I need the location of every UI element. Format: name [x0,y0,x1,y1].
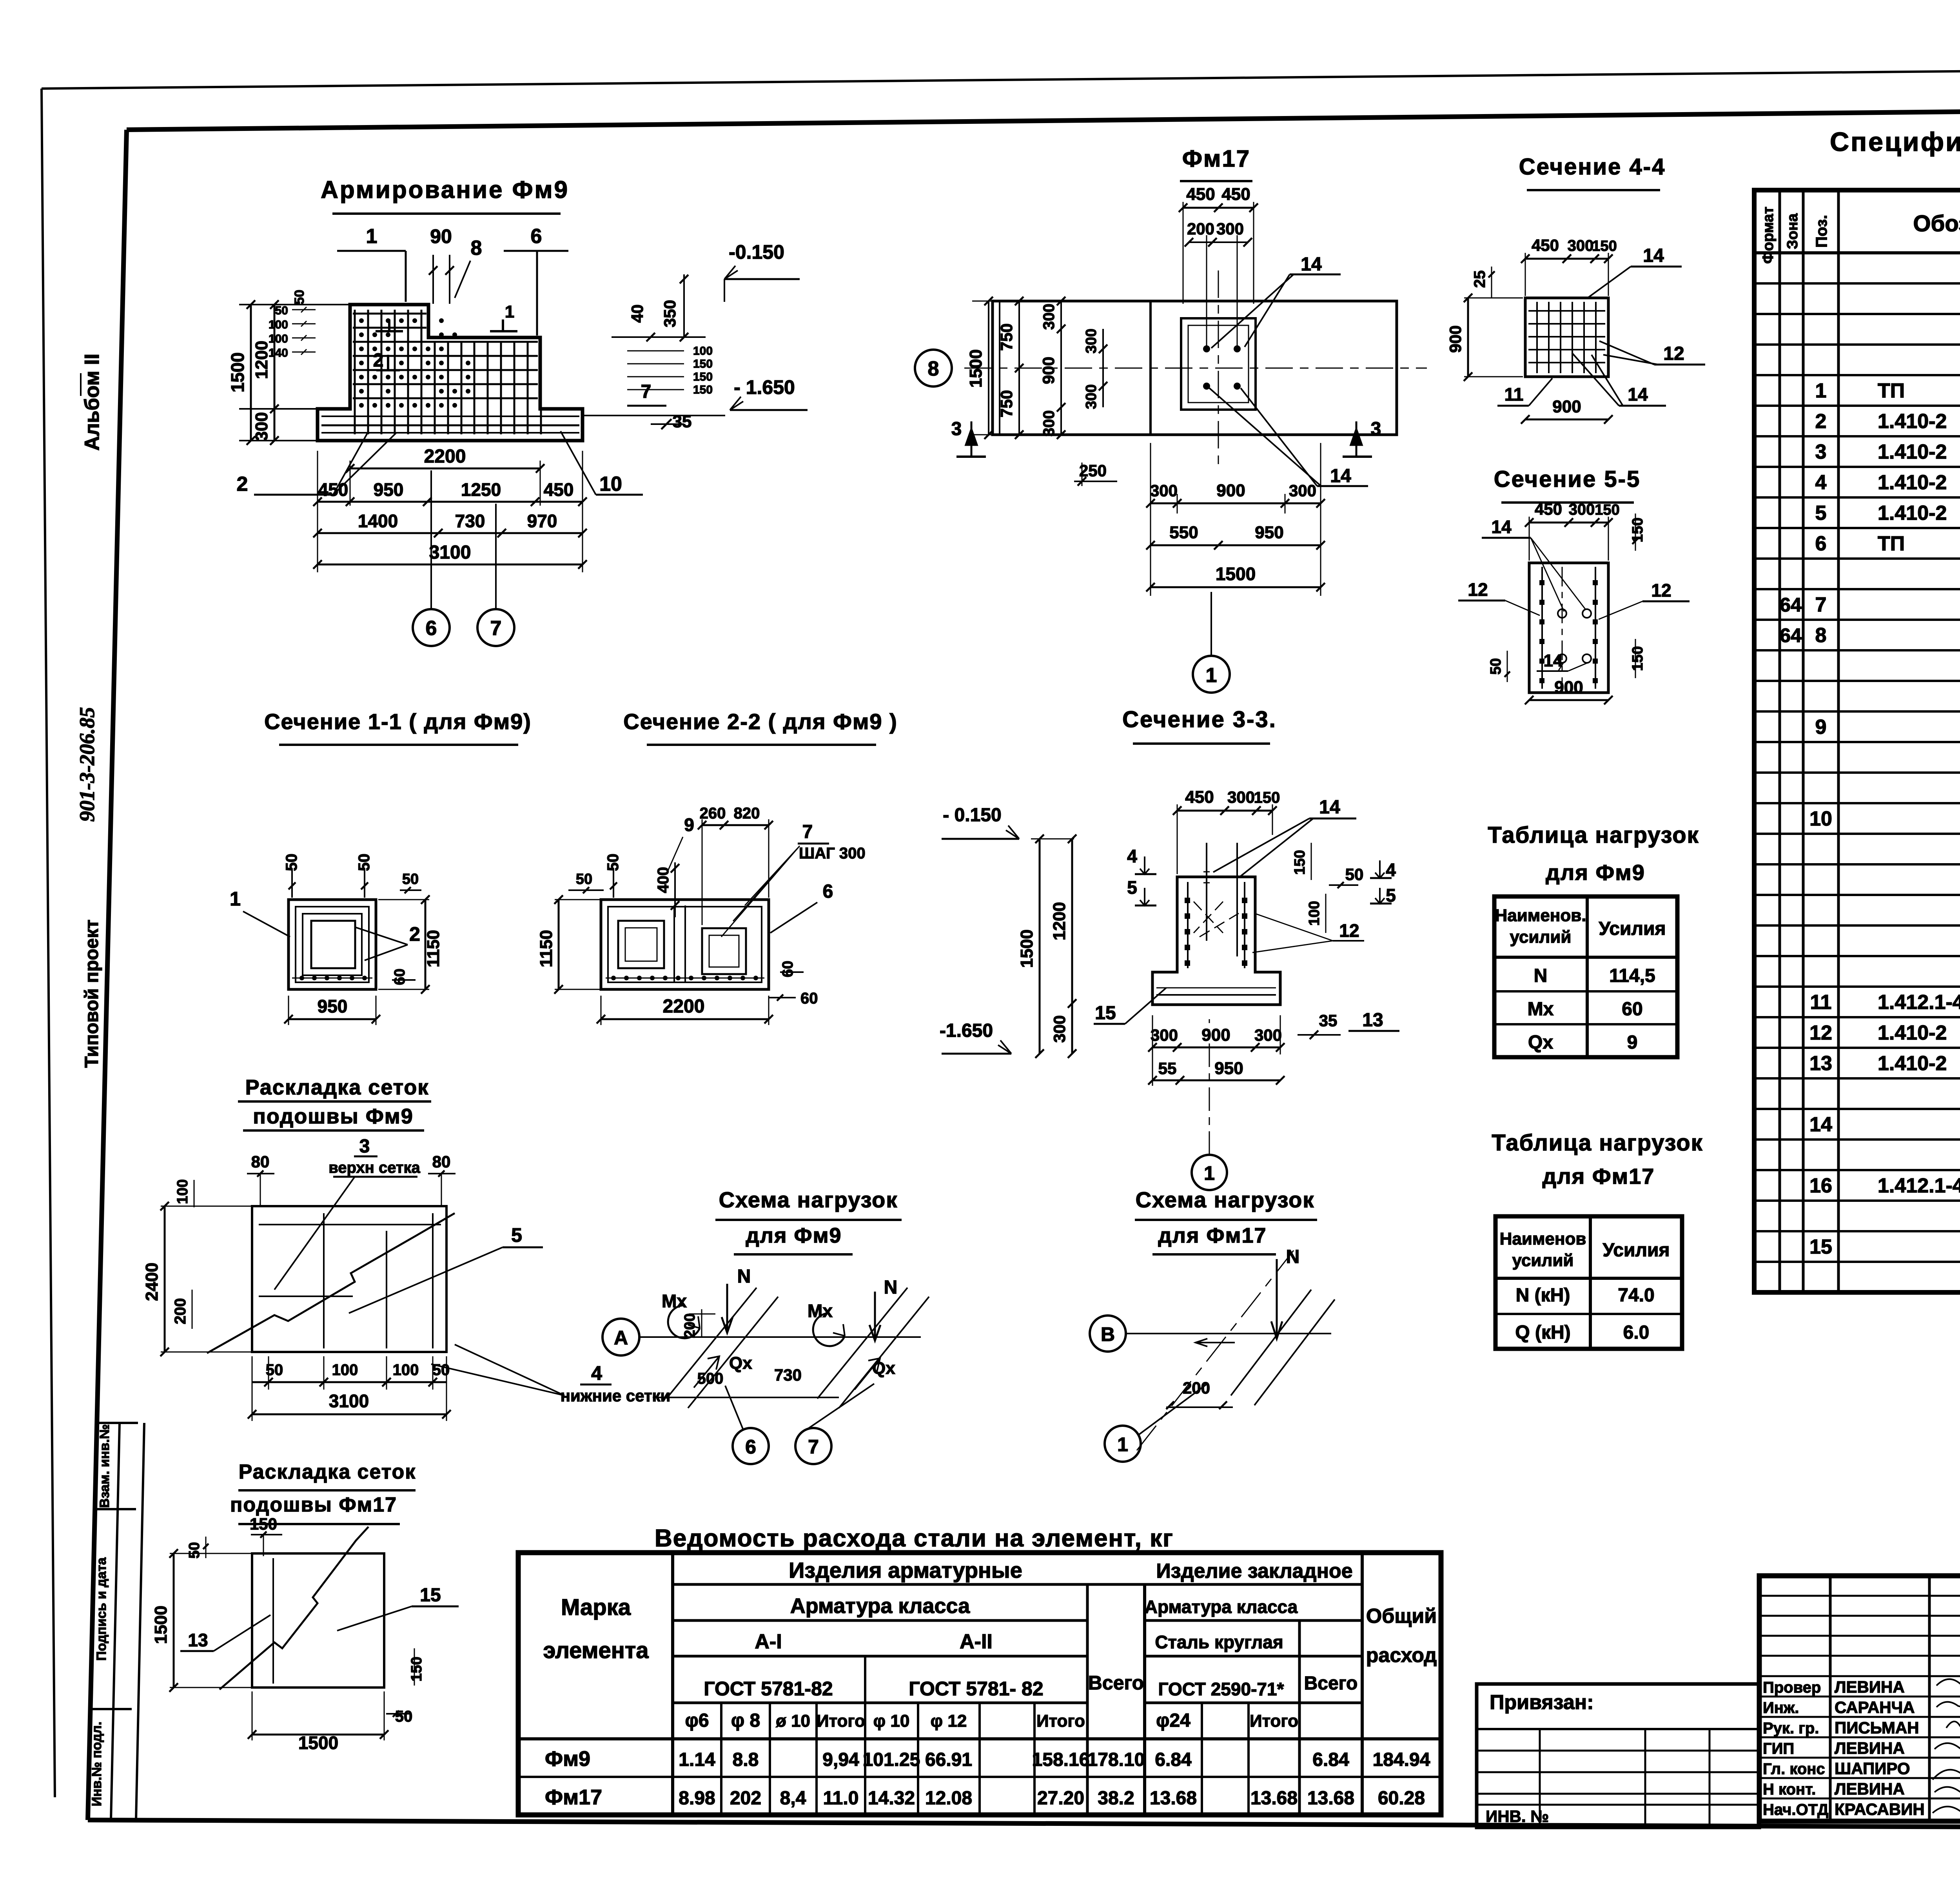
svg-text:7: 7 [641,381,652,402]
svg-text:- 1.650: - 1.650 [734,376,795,398]
svg-text:1: 1 [1815,379,1827,402]
svg-text:Марка: Марка [561,1595,631,1620]
load table Fm17 [1495,1216,1682,1349]
svg-text:750: 750 [997,390,1016,417]
svg-text:12: 12 [1468,579,1488,600]
svg-text:для Фм9: для Фм9 [746,1224,842,1247]
right small dims 40/350, 100x150 chain [612,336,706,338]
svg-text:1250: 1250 [461,479,501,500]
svg-text:300: 300 [1083,328,1100,353]
svg-text:450: 450 [1532,236,1559,254]
svg-text:3: 3 [1815,441,1827,463]
svg-text:подошвы Фм9: подошвы Фм9 [253,1105,414,1128]
svg-text:ИНВ. №: ИНВ. № [1486,1807,1549,1825]
svg-text:5: 5 [511,1224,522,1246]
axis circles 6 and 7 [413,609,450,646]
svg-text:450: 450 [318,479,348,500]
svg-text:150: 150 [1254,789,1280,806]
section 2-2 bottom bars [606,978,764,979]
svg-text:1500: 1500 [298,1733,338,1753]
svg-text:4: 4 [591,1362,602,1384]
svg-text:300: 300 [1216,220,1244,238]
svg-text:Раскладка сеток: Раскладка сеток [245,1076,429,1099]
svg-text:подошвы Фм17: подошвы Фм17 [230,1493,397,1516]
svg-text:Раскладка сеток: Раскладка сеток [239,1461,416,1483]
svg-text:3: 3 [359,1136,370,1157]
svg-text:8: 8 [471,237,482,259]
stamp box line [99,1422,138,1424]
svg-text:Обозначение: Обозначение [1913,211,1960,236]
svg-text:Инж.: Инж. [1763,1699,1799,1717]
svg-text:11.0: 11.0 [823,1788,859,1809]
Fm17 pedestal [1181,318,1256,410]
svg-text:1500: 1500 [966,349,985,388]
svg-text:15: 15 [420,1585,441,1606]
signature [1933,1770,1960,1782]
svg-text:1150: 1150 [537,930,556,967]
svg-text:25: 25 [1471,270,1488,288]
svg-text:74.0: 74.0 [1618,1285,1654,1306]
svg-text:1.410-2: 1.410-2 [1878,441,1947,463]
svg-text:Qх: Qх [729,1354,752,1373]
svg-text:150: 150 [408,1657,425,1681]
schema Fm9 axis [603,1319,639,1355]
svg-text:6: 6 [823,881,833,902]
svg-text:8: 8 [928,357,939,380]
svg-text:ГИП: ГИП [1763,1740,1794,1757]
svg-text:ЛЕВИНА: ЛЕВИНА [1835,1678,1905,1696]
stamp right vertical [136,1423,144,1820]
svg-text:Формат: Формат [1760,207,1777,264]
svg-text:900: 900 [1201,1025,1230,1045]
svg-text:150: 150 [1595,502,1619,518]
svg-text:7: 7 [802,822,813,842]
stamp inner vertical [111,1423,120,1820]
svg-text:150: 150 [1292,850,1308,875]
svg-text:14: 14 [1628,384,1648,405]
svg-text:300: 300 [1569,501,1595,518]
svg-text:Альбом II: Альбом II [81,354,103,451]
svg-text:САРАНЧА: САРАНЧА [1835,1698,1915,1717]
svg-text:55: 55 [1158,1059,1177,1078]
svg-text:Таблица нагрузок: Таблица нагрузок [1492,1130,1703,1156]
svg-text:9: 9 [684,815,694,835]
svg-text:450: 450 [1186,185,1215,204]
svg-text:300: 300 [1050,1015,1069,1043]
svg-text:300: 300 [1150,481,1178,500]
marker 1 section left [376,330,403,332]
section 3-3 left dims [1039,839,1041,1054]
svg-text:8.8: 8.8 [733,1749,759,1770]
signature [1936,1702,1960,1709]
svg-text:100: 100 [269,332,288,345]
svg-text:450: 450 [1185,788,1214,807]
svg-text:3100: 3100 [429,542,471,563]
svg-text:14: 14 [1330,466,1351,486]
svg-text:60: 60 [1622,999,1642,1020]
svg-text:1: 1 [1206,664,1217,687]
svg-text:901-3-206.85: 901-3-206.85 [75,707,99,822]
Fm17 bolts [1203,345,1210,352]
svg-text:Qх: Qх [1528,1032,1553,1053]
svg-text:1400: 1400 [358,511,398,531]
section 2-2 dims [558,900,560,989]
svg-text:14: 14 [1301,254,1322,275]
svg-text:- 0.150: - 0.150 [943,805,1001,826]
svg-text:φ 12: φ 12 [931,1711,967,1731]
frame bottom [88,1820,1960,1829]
svg-text:Зона: Зона [1784,213,1801,249]
svg-text:550: 550 [1169,523,1198,542]
svg-text:Рук. гр.: Рук. гр. [1763,1720,1819,1737]
svg-text:8,4: 8,4 [780,1788,806,1809]
svg-text:300: 300 [1040,410,1058,437]
svg-text:150: 150 [250,1515,277,1533]
svg-text:Усилия: Усилия [1602,1240,1670,1261]
svg-text:ТП: ТП [1878,379,1905,402]
marker 11 [490,330,517,332]
svg-text:N: N [737,1266,751,1287]
svg-text:Изделие закладное: Изделие закладное [1156,1560,1352,1582]
svg-text:1: 1 [1204,1162,1215,1184]
svg-text:Итого: Итого [1036,1711,1085,1731]
svg-text:60.28: 60.28 [1378,1788,1425,1809]
svg-text:300: 300 [1568,237,1594,254]
stamp box line [97,1508,136,1510]
svg-text:80: 80 [251,1152,270,1171]
svg-text:для Фм17: для Фм17 [1158,1224,1267,1247]
svg-text:ЛЕВИНА: ЛЕВИНА [1835,1780,1905,1798]
stamp box line [93,1708,132,1710]
svg-text:500: 500 [697,1370,724,1387]
svg-text:730: 730 [455,511,485,531]
svg-text:ШАПИРО: ШАПИРО [1835,1759,1910,1778]
schema Fm17 slanted lines [1231,1290,1311,1395]
svg-text:Провер: Провер [1763,1679,1821,1696]
svg-text:50: 50 [186,1542,203,1559]
svg-text:-1.650: -1.650 [940,1020,993,1041]
svg-text:Мх: Мх [1528,999,1554,1020]
section 5-5 dims [1529,522,1608,524]
svg-text:400: 400 [655,867,672,893]
svg-text:35: 35 [1319,1011,1338,1030]
svg-text:Qх: Qх [872,1359,895,1378]
svg-text:1: 1 [366,225,377,248]
svg-text:Итого: Итого [817,1711,865,1731]
svg-text:150: 150 [693,357,713,370]
svg-text:100: 100 [269,318,288,331]
svg-text:6: 6 [745,1436,756,1458]
svg-text:2: 2 [373,350,384,371]
svg-text:Сечение 1-1 ( для Фм9): Сечение 1-1 ( для Фм9) [264,709,532,734]
svg-text:Взам. инв.№: Взам. инв.№ [97,1424,112,1508]
svg-text:6: 6 [1815,532,1827,555]
svg-text:3: 3 [951,419,962,439]
svg-text:ГОСТ 5781- 82: ГОСТ 5781- 82 [909,1678,1043,1700]
svg-text:158.16: 158.16 [1032,1749,1090,1770]
section 1-1 dims [291,868,293,898]
svg-text:Изделия арматурные: Изделия арматурные [789,1558,1022,1582]
svg-text:50: 50 [292,290,307,305]
schema Fm17 axis [1090,1316,1126,1352]
svg-text:Усилия: Усилия [1599,918,1666,939]
signature [1946,1722,1960,1731]
privyazan block [1477,1684,1759,1827]
svg-text:Фм17: Фм17 [1182,145,1250,172]
Fm17 plan outline [993,301,1397,435]
svg-text:900: 900 [1216,481,1245,500]
svg-text:60: 60 [800,990,818,1007]
schema Fm17 circle 1 [1105,1426,1141,1462]
svg-text:Всего: Всего [1304,1673,1358,1694]
svg-text:50: 50 [283,854,300,871]
svg-text:Всего: Всего [1088,1672,1144,1694]
section 3-3 top dims [1177,810,1272,812]
svg-text:N: N [884,1277,898,1298]
svg-text:2: 2 [409,923,420,945]
svg-text:Н конт.: Н конт. [1763,1781,1816,1798]
svg-text:450: 450 [1221,185,1250,204]
Fm17 left dims [988,301,989,435]
svg-text:6.84: 6.84 [1312,1749,1349,1770]
svg-text:60: 60 [392,969,408,985]
svg-text:150: 150 [693,370,713,383]
svg-text:ГОСТ 5781-82: ГОСТ 5781-82 [704,1678,833,1700]
svg-text:60: 60 [780,961,796,977]
schema Fm9 slanted planes [666,1288,757,1399]
svg-text:1500: 1500 [1216,564,1256,584]
schema Fm9 circles 6 7 [733,1428,769,1464]
section 2-2 left pocket [618,921,664,968]
svg-text:А-I: А-I [755,1630,782,1653]
section 4-4 dims [1525,258,1608,260]
svg-text:1150: 1150 [424,930,443,967]
svg-text:12: 12 [1651,580,1671,601]
svg-text:6: 6 [531,225,542,248]
svg-text:А: А [614,1327,628,1349]
svg-text:140: 140 [269,347,288,359]
svg-text:100: 100 [1306,901,1323,925]
svg-text:усилий: усилий [1512,1251,1574,1270]
svg-text:820: 820 [734,805,760,822]
svg-text:1500: 1500 [227,352,248,392]
frame left [88,130,127,1820]
svg-text:8.98: 8.98 [679,1788,715,1809]
svg-text:усилий: усилий [1510,927,1572,947]
svg-text:13.68: 13.68 [1150,1788,1197,1809]
svg-text:12.08: 12.08 [925,1788,972,1809]
svg-text:50: 50 [432,1361,450,1379]
schema Fm17 N arrow [1271,1259,1282,1339]
svg-text:Ведомость расхода стали на: Ведомость расхода стали на элемент, кг [655,1525,1174,1552]
svg-text:38.2: 38.2 [1098,1788,1134,1809]
svg-text:Сечение 3-3.: Сечение 3-3. [1122,707,1277,732]
svg-text:Подпись и дата: Подпись и дата [94,1557,109,1661]
section 5-5 rect [1529,563,1608,693]
svg-text:для Фм9: для Фм9 [1546,860,1645,885]
svg-text:100: 100 [332,1361,358,1379]
title block outer [1759,1576,1960,1821]
Fm17 section marker 3 left [966,421,977,457]
svg-text:200: 200 [172,1298,189,1325]
svg-text:Q (кН): Q (кН) [1515,1322,1570,1343]
svg-text:50: 50 [395,1708,413,1725]
signature [1935,1787,1960,1795]
Fm17 top dims 200/300 [1189,241,1248,243]
svg-text:элемента: элемента [543,1638,649,1663]
svg-text:Нач.ОТД: Нач.ОТД [1763,1801,1829,1818]
svg-text:В: В [1101,1323,1115,1345]
rebar grid [354,310,356,434]
svg-text:950: 950 [1214,1059,1243,1078]
svg-text:1200: 1200 [1050,902,1069,940]
svg-text:970: 970 [527,511,557,531]
svg-text:Сечение 4-4: Сечение 4-4 [1519,154,1666,180]
svg-text:150: 150 [1630,646,1646,671]
svg-text:1.410-2: 1.410-2 [1878,1022,1947,1044]
Fm17 center lines [964,368,1427,369]
svg-text:ПИСЬМАН: ПИСЬМАН [1835,1718,1919,1737]
svg-text:Мх: Мх [808,1301,833,1321]
svg-text:64: 64 [1780,624,1802,646]
section 2-2 outline [601,900,769,989]
svg-text:Фм9: Фм9 [545,1747,590,1771]
svg-text:64: 64 [1780,594,1802,616]
svg-text:100: 100 [693,345,713,357]
section 3-3 outline [1152,877,1280,1005]
svg-text:1500: 1500 [151,1606,171,1644]
svg-text:900: 900 [1446,325,1465,353]
svg-text:ГОСТ 2590-71*: ГОСТ 2590-71* [1158,1679,1284,1699]
svg-text:2400: 2400 [142,1263,162,1301]
svg-text:11: 11 [1810,991,1832,1014]
svg-text:150: 150 [693,383,713,396]
svg-text:450: 450 [544,479,574,500]
svg-text:66.91: 66.91 [925,1749,972,1770]
svg-text:50: 50 [604,854,622,871]
svg-text:7: 7 [490,617,502,640]
svg-text:184.94: 184.94 [1373,1749,1430,1770]
svg-text:N: N [1534,965,1548,986]
svg-text:N (кН): N (кН) [1516,1285,1570,1306]
axis circle 8 [915,350,952,386]
svg-text:Сталь круглая: Сталь круглая [1155,1632,1283,1652]
svg-text:14: 14 [1643,245,1664,266]
svg-text:4: 4 [1127,846,1137,866]
svg-text:40: 40 [628,305,646,323]
schema Fm9 Qx arrows [694,1356,719,1388]
svg-text:Фм17: Фм17 [545,1785,602,1809]
svg-text:950: 950 [1255,523,1283,542]
svg-text:φ 10: φ 10 [873,1711,910,1731]
svg-text:14: 14 [1809,1113,1832,1136]
callout 1 [337,250,406,252]
svg-text:300: 300 [1289,481,1316,500]
svg-text:300: 300 [1040,304,1058,330]
svg-text:260: 260 [700,805,726,822]
svg-text:Наименов.: Наименов. [1495,906,1586,925]
svg-text:Гл. конс: Гл. конс [1763,1760,1825,1778]
svg-text:200: 200 [1187,220,1214,238]
schema Fm9 N arrows [722,1284,733,1333]
svg-text:16: 16 [1809,1174,1832,1197]
svg-text:1.410-2: 1.410-2 [1878,410,1947,433]
axis circle 1 below Fm17 [1193,656,1230,693]
svg-text:верхн сетка: верхн сетка [328,1159,420,1176]
svg-text:300: 300 [1083,384,1100,409]
Fm17 section marker 3 right [1351,421,1362,457]
section 4-4 square [1525,298,1608,377]
svg-text:12: 12 [1339,920,1359,941]
raskladka Fm17 plan [252,1553,384,1688]
svg-text:101.25: 101.25 [863,1749,920,1770]
outer border top [42,66,1960,89]
svg-text:1.14: 1.14 [679,1749,715,1770]
svg-text:50: 50 [402,871,419,887]
svg-text:300: 300 [1151,1026,1178,1044]
svg-text:5: 5 [1127,877,1137,898]
svg-text:14: 14 [1491,517,1512,537]
svg-text:Сечение 5-5: Сечение 5-5 [1494,466,1641,492]
svg-text:200: 200 [1183,1379,1210,1397]
svg-text:15: 15 [1095,1003,1116,1023]
svg-text:1: 1 [505,302,514,321]
svg-text:Поз.: Поз. [1813,215,1830,248]
svg-text:ТП: ТП [1878,532,1905,555]
signature [1935,1743,1960,1752]
svg-text:Сечение 2-2 ( для Фм9 ): Сечение 2-2 ( для Фм9 ) [623,709,897,734]
svg-text:250: 250 [1079,461,1107,480]
svg-text:730: 730 [774,1366,802,1384]
load table Fm9 [1494,896,1677,1057]
svg-text:5: 5 [1815,502,1827,524]
svg-text:1.410-2: 1.410-2 [1878,502,1947,524]
svg-text:300: 300 [1227,788,1255,806]
svg-text:1.412.1-4: 1.412.1-4 [1878,1174,1960,1197]
Fm17 top dims 450/450 [1183,207,1254,209]
rebar dots [359,318,364,323]
svg-text:1500: 1500 [1017,929,1036,968]
svg-text:φ24: φ24 [1156,1710,1191,1731]
signature [1936,1675,1960,1688]
svg-text:50: 50 [1345,865,1364,884]
svg-text:3100: 3100 [329,1391,369,1411]
svg-text:15: 15 [1809,1236,1832,1258]
section 2-2 verticals mid [673,905,675,982]
svg-text:900: 900 [1039,357,1058,384]
svg-text:5: 5 [1386,885,1396,905]
section 3-3 rebar [1187,882,1189,968]
svg-text:φ 8: φ 8 [731,1710,760,1731]
svg-text:1.410-2: 1.410-2 [1878,471,1947,494]
svg-text:2200: 2200 [663,996,705,1017]
svg-text:7: 7 [808,1436,819,1458]
section 3-3 bolts top [1206,843,1207,941]
svg-text:ЛЕВИНА: ЛЕВИНА [1835,1739,1905,1757]
svg-text:13.68: 13.68 [1250,1788,1298,1809]
svg-text:Типовой проект: Типовой проект [82,920,102,1068]
svg-text:9: 9 [1627,1032,1638,1053]
svg-text:нижние сетки: нижние сетки [561,1386,671,1405]
svg-text:Арматура класса: Арматура класса [790,1594,970,1618]
svg-text:6.0: 6.0 [1623,1322,1650,1343]
raskladka Fm9 plan [252,1206,446,1352]
svg-text:202: 202 [730,1788,761,1809]
svg-text:50: 50 [356,854,373,871]
svg-text:950: 950 [374,479,404,500]
svg-text:1.412.1-4: 1.412.1-4 [1878,991,1960,1014]
svg-text:2: 2 [237,473,248,495]
